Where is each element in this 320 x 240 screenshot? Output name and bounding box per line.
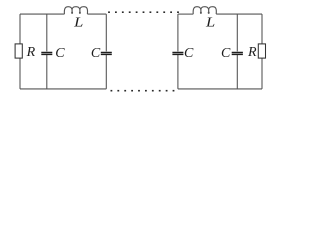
resistor R (right) body (258, 44, 265, 58)
svg-text:L: L (73, 15, 84, 30)
capacitor C3 plates (172, 52, 183, 54)
wire vertical branch of capacitor C1 (lower part) (46, 55, 48, 89)
capacitor C2 plates (101, 52, 112, 54)
resistor R (left) body (15, 44, 22, 58)
wire top-left horizontal segment (20, 13, 64, 15)
inductor L (left) (64, 7, 87, 14)
svg-text:R: R (26, 45, 36, 60)
wire vertical branch of capacitor C2 (lower part) (105, 55, 107, 89)
wire vertical branch of capacitor C4 (upper part) (236, 14, 238, 51)
svg-text:L: L (205, 15, 216, 30)
wire top segment between right L and right vertical (216, 13, 262, 15)
wire bottom-right horizontal segment (178, 88, 262, 90)
svg-text:C: C (184, 46, 194, 61)
svg-text:C: C (91, 46, 101, 61)
continuation dots (top row) (108, 11, 110, 13)
wire left vertical (source branch) (19, 14, 21, 89)
svg-text:C: C (55, 46, 65, 61)
wire vertical branch of capacitor C3 (upper part) (177, 14, 179, 51)
wire vertical branch of capacitor C3 (lower part) (177, 55, 179, 89)
svg-text:R: R (247, 45, 257, 60)
wire bottom-left horizontal segment (20, 88, 106, 90)
continuation dots (bottom row) (111, 90, 113, 92)
wire right vertical (load branch) (261, 14, 263, 89)
wire vertical branch of capacitor C4 (lower part) (236, 55, 238, 89)
wire vertical branch of capacitor C2 (upper part) (105, 14, 107, 51)
inductor L (right) (193, 7, 216, 14)
wire vertical branch of capacitor C1 (upper part) (46, 14, 48, 51)
svg-text:C: C (221, 46, 231, 61)
capacitor C4 plates (232, 52, 243, 54)
wire top segment between L and left-cell output node (87, 13, 106, 15)
wire top-right cell input segment (178, 13, 193, 15)
capacitor C1 plates (41, 52, 52, 54)
